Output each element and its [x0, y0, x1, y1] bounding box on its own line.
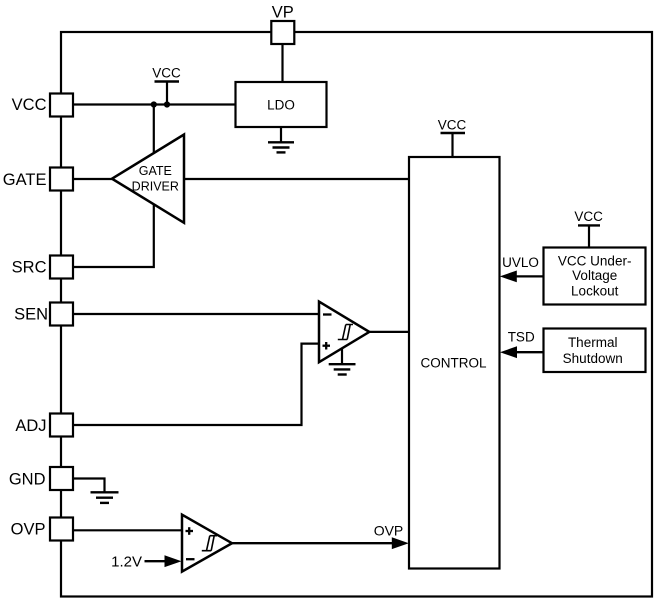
wire comparator U2 output OVP arrow to CONTROL — [232, 537, 409, 549]
wire ADJ pin to comparator plus input — [73, 344, 319, 425]
svg-text:Voltage: Voltage — [572, 268, 617, 283]
wire gate driver input from CONTROL — [184, 178, 409, 180]
block VCC Under-Voltage Lockout — [544, 248, 646, 305]
svg-text:ADJ: ADJ — [15, 417, 46, 435]
wire comparator U1 output to CONTROL — [369, 331, 409, 333]
wire OVP pin to comparator U2 — [73, 529, 182, 531]
svg-text:LDO: LDO — [267, 97, 295, 112]
wire VCC node to gate driver — [153, 105, 155, 155]
hysteresis symbol U1 — [338, 325, 353, 340]
block CONTROL — [409, 157, 500, 569]
pin ADJ — [50, 414, 73, 437]
wire SEN pin to comparator — [73, 313, 319, 315]
svg-text:GND: GND — [9, 471, 46, 489]
power VCC symbol left — [152, 66, 181, 105]
pin SEN — [50, 303, 73, 326]
svg-text:Shutdown: Shutdown — [563, 351, 623, 366]
minus input marker U2 — [186, 558, 195, 560]
svg-text:VCC: VCC — [574, 209, 603, 224]
svg-text:OVP: OVP — [11, 521, 46, 539]
svg-text:CONTROL: CONTROL — [420, 355, 486, 370]
svg-text:GATE: GATE — [139, 164, 172, 178]
comparator U2 OVP — [182, 515, 232, 572]
svg-text:SRC: SRC — [12, 259, 47, 277]
wire SRC pin to gate driver — [73, 204, 154, 267]
comparator U1 SEN — [319, 302, 369, 363]
svg-text:GATE: GATE — [3, 171, 47, 189]
svg-text:VP: VP — [272, 3, 294, 21]
ground below comparator U1 — [329, 348, 356, 375]
svg-text:OVP: OVP — [374, 522, 404, 538]
hysteresis symbol U2 — [202, 536, 217, 551]
pin GATE — [50, 168, 73, 191]
wire GND pin to ground — [73, 479, 105, 492]
pin OVP — [50, 518, 73, 541]
wire TSD arrow to CONTROL — [500, 346, 544, 358]
svg-text:TSD: TSD — [508, 330, 535, 345]
node junction dot A — [151, 101, 157, 107]
svg-text:VCC: VCC — [438, 117, 467, 132]
block Thermal Shutdown — [544, 329, 646, 373]
svg-text:DRIVER: DRIVER — [132, 179, 179, 193]
svg-text:VCC: VCC — [12, 96, 47, 114]
ground at GND pin — [91, 492, 119, 503]
wire VP pin to LDO — [281, 44, 283, 82]
pin GND — [50, 467, 73, 490]
plus input marker U2 — [186, 530, 194, 532]
pin VP — [271, 21, 294, 44]
wire UVLO arrow to CONTROL — [500, 271, 544, 283]
svg-text:VCC Under-: VCC Under- — [558, 254, 632, 269]
svg-text:UVLO: UVLO — [502, 255, 539, 270]
svg-text:SEN: SEN — [14, 306, 48, 324]
gate driver U3 — [112, 135, 184, 223]
power VCC symbol above UVLO — [574, 209, 603, 248]
svg-text:VCC: VCC — [152, 66, 181, 81]
pin VCC — [50, 94, 73, 117]
reference 1.2V arrow into U2 minus input — [111, 554, 181, 571]
svg-text:1.2V: 1.2V — [111, 554, 142, 571]
power VCC symbol above CONTROL — [438, 117, 467, 157]
pin SRC — [50, 256, 73, 279]
node junction dot B — [164, 101, 170, 107]
plus input marker U1 — [323, 345, 331, 347]
block LDO — [236, 82, 327, 127]
minus input marker U1 — [323, 313, 332, 315]
svg-text:Lockout: Lockout — [571, 283, 619, 298]
wire VCC pin to LDO — [73, 103, 236, 105]
svg-text:Thermal: Thermal — [568, 335, 618, 350]
wire GATE pin to gate driver apex — [73, 178, 114, 180]
ground below LDO — [268, 127, 294, 152]
